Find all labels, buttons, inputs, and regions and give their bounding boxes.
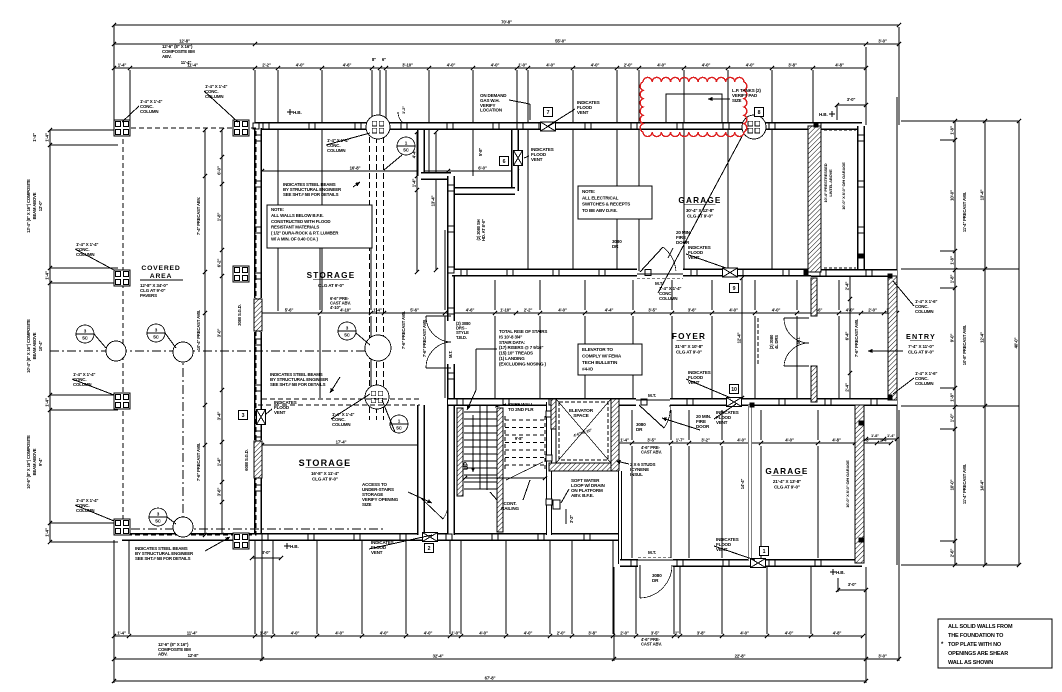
svg-text:2'-0": 2'-0" [624, 62, 633, 67]
svg-text:7'-4" PRECAST ABV.: 7'-4" PRECAST ABV. [196, 197, 201, 235]
svg-text:T.B.D.: T.B.D. [456, 335, 467, 340]
svg-text:9'-4": 9'-4" [38, 458, 43, 466]
svg-text:ABV.: ABV. [158, 652, 168, 657]
svg-text:4'-0": 4'-0" [772, 307, 781, 312]
svg-text:3'-5": 3'-5" [647, 437, 656, 442]
svg-text:6'-2": 6'-2" [216, 259, 221, 268]
svg-text:DOOR: DOOR [696, 424, 710, 429]
svg-text:2'-2": 2'-2" [262, 62, 271, 67]
svg-text:M.T.: M.T. [448, 351, 453, 358]
svg-text:SPACE: SPACE [573, 413, 589, 419]
svg-text:2'-0": 2'-0" [868, 307, 877, 312]
svg-text:17'-4": 17'-4" [336, 439, 347, 444]
svg-text:COLUMN: COLUMN [327, 148, 345, 153]
svg-text:1'-2": 1'-2" [401, 106, 406, 114]
svg-text:VENT: VENT [716, 420, 728, 425]
svg-text:(15) 10" TREADS: (15) 10" TREADS [499, 351, 533, 356]
svg-text:VENT: VENT [371, 550, 383, 555]
svg-text:LINTEL ABOVE: LINTEL ABOVE [828, 169, 833, 197]
svg-text:WALL AS SHOWN: WALL AS SHOWN [948, 660, 993, 666]
svg-text:SWITCHES & RECEPTS: SWITCHES & RECEPTS [582, 202, 630, 207]
svg-text:1'-8": 1'-8" [949, 275, 954, 284]
svg-text:6": 6" [382, 57, 386, 62]
svg-text:BEAM ABOVE: BEAM ABOVE [32, 192, 37, 219]
svg-text:ELEVATOR TO: ELEVATOR TO [582, 347, 613, 352]
svg-text:2'-4": 2'-4" [844, 383, 849, 392]
svg-text:5C: 5C [396, 425, 402, 430]
svg-text:10: 10 [731, 387, 737, 393]
svg-text:GARAGE: GARAGE [765, 467, 808, 476]
svg-text:3'-2": 3'-2" [701, 437, 710, 442]
svg-text:4'-0": 4'-0" [546, 62, 555, 67]
svg-text:1'-7": 1'-7" [676, 437, 685, 442]
svg-text:7'-6" PRECAST AVB.: 7'-6" PRECAST AVB. [196, 443, 201, 481]
svg-text:10'-6" (8" X 16") COMPOSITE: 10'-6" (8" X 16") COMPOSITE [26, 435, 31, 489]
svg-text:4'-0": 4'-0" [746, 62, 755, 67]
svg-text:BEAM ABOVE: BEAM ABOVE [32, 448, 37, 475]
svg-text:ABV.: ABV. [162, 54, 172, 59]
svg-text:OPENINGS ARE SHEAR: OPENINGS ARE SHEAR [948, 651, 1008, 657]
svg-text:5C: 5C [153, 334, 159, 339]
svg-text:1'-8": 1'-8" [216, 213, 221, 222]
svg-text:COLUMN: COLUMN [915, 381, 933, 386]
svg-text:4'-8": 4'-8" [832, 437, 841, 442]
svg-text:COMPLY W/ FEMA: COMPLY W/ FEMA [582, 354, 622, 359]
svg-text:COLUMN: COLUMN [332, 422, 350, 427]
svg-text:21'-4" X 13'-8": 21'-4" X 13'-8" [773, 479, 801, 484]
svg-text:3'-4": 3'-4" [216, 412, 221, 421]
svg-text:3'-0": 3'-0" [878, 38, 887, 43]
svg-text:4'-0": 4'-0" [335, 630, 344, 635]
svg-text:1'-4": 1'-4" [373, 307, 382, 312]
svg-text:TOP PLATE WITH NO: TOP PLATE WITH NO [948, 642, 1002, 648]
svg-text:ENTRY: ENTRY [906, 332, 936, 341]
svg-text:14'-4": 14'-4" [979, 480, 984, 491]
svg-text:NOTE:: NOTE: [582, 189, 596, 194]
svg-text:2: 2 [428, 546, 431, 552]
svg-text:11'-4": 11'-4" [181, 60, 192, 65]
svg-text:6: 6 [503, 159, 506, 165]
svg-text:VENT: VENT [577, 110, 589, 115]
svg-text:LOCATION: LOCATION [480, 108, 502, 113]
svg-text:SEE SHT.# 5B FOR DETAILS: SEE SHT.# 5B FOR DETAILS [283, 192, 339, 197]
svg-text:5C: 5C [403, 147, 409, 152]
svg-text:3'-6": 3'-6" [216, 488, 221, 497]
svg-text:TECH BULLETIN: TECH BULLETIN [582, 360, 618, 365]
svg-text:H.B.: H.B. [290, 544, 299, 549]
svg-text:AREA: AREA [150, 273, 172, 280]
svg-text:1'-4": 1'-4" [216, 458, 221, 467]
svg-text:4'-10": 4'-10" [330, 305, 341, 310]
svg-text:2'-0": 2'-0" [557, 630, 566, 635]
svg-text:3'-8": 3'-8" [588, 630, 597, 635]
svg-text:CLG AT 9'-0": CLG AT 9'-0" [312, 477, 338, 482]
svg-text:55'-0": 55'-0" [555, 38, 566, 43]
svg-text:4'-0": 4'-0" [479, 630, 488, 635]
svg-text:8: 8 [758, 110, 761, 116]
svg-text:12'-8": 12'-8" [188, 653, 199, 658]
svg-text:3'-0": 3'-0" [262, 550, 271, 555]
svg-text:10'-0": 10'-0" [949, 190, 954, 201]
svg-text:30'-4" X 12'-8": 30'-4" X 12'-8" [686, 208, 714, 213]
svg-text:5'-8": 5'-8" [478, 148, 483, 156]
svg-text:W/ A MIN. OF 0.40 CCA ): W/ A MIN. OF 0.40 CCA ) [271, 237, 318, 242]
svg-text:3'-6": 3'-6" [688, 307, 697, 312]
svg-text:1": 1" [675, 630, 679, 635]
svg-text:8": 8" [372, 57, 376, 62]
svg-text:RESISTANT MATERIALS: RESISTANT MATERIALS [271, 225, 319, 230]
svg-text:4'-0": 4'-0" [524, 630, 533, 635]
svg-text:ALL SOLID WALLS FROM: ALL SOLID WALLS FROM [948, 624, 1013, 630]
svg-text:10'-4": 10'-4" [38, 341, 43, 352]
svg-text:M.T.: M.T. [796, 337, 801, 344]
svg-text:VENT: VENT [274, 410, 286, 415]
svg-text:6'-4": 6'-4" [844, 332, 849, 341]
svg-text:4'-0": 4'-0" [424, 630, 433, 635]
svg-text:UP: UP [464, 462, 470, 470]
svg-text:5C: 5C [82, 335, 88, 340]
svg-text:4'-6": 4'-6" [343, 62, 352, 67]
svg-text:2'-6": 2'-6" [949, 549, 954, 558]
svg-text:7'-6" PRECAST AVB.: 7'-6" PRECAST AVB. [854, 319, 859, 357]
svg-text:SEE SHT.# 5B FOR DETAILS: SEE SHT.# 5B FOR DETAILS [270, 382, 326, 387]
svg-text:(17) RISERS @ 7 9/16": (17) RISERS @ 7 9/16" [499, 345, 543, 350]
svg-text:TO BE ABV D.F.E.: TO BE ABV D.F.E. [582, 208, 617, 213]
svg-text:DR: DR [652, 578, 659, 583]
svg-text:10'-0" X 8'-0" O/H GARAGE: 10'-0" X 8'-0" O/H GARAGE [841, 162, 846, 210]
svg-text:10'-0" X 8'-0" O/H GARAGE: 10'-0" X 8'-0" O/H GARAGE [845, 460, 850, 508]
svg-text:4'-0": 4'-0" [447, 62, 456, 67]
svg-text:13'-4": 13'-4" [430, 196, 435, 207]
svg-text:4'-0": 4'-0" [702, 62, 711, 67]
svg-text:9'-8": 9'-8" [515, 436, 523, 441]
svg-text:TO 2ND FLR: TO 2ND FLR [508, 407, 534, 412]
svg-text:CONSTRUCTED WITH FLOOD: CONSTRUCTED WITH FLOOD [271, 219, 330, 224]
svg-text:SIZE: SIZE [732, 98, 742, 103]
svg-text:#4-IO: #4-IO [582, 367, 593, 372]
svg-text:1'-4": 1'-4" [887, 433, 895, 438]
svg-text:4L DRS: 4L DRS [774, 335, 779, 349]
svg-text:2'-2": 2'-2" [524, 307, 533, 312]
svg-text:H.B.: H.B. [293, 110, 302, 115]
svg-text:CLG AT 9'-0": CLG AT 9'-0" [774, 485, 800, 490]
svg-text:9: 9 [733, 286, 736, 292]
svg-text:SIZE: SIZE [362, 502, 372, 507]
svg-text:1'-8": 1'-8" [949, 126, 954, 135]
svg-text:1'-4": 1'-4" [118, 62, 127, 67]
svg-text:1'-4": 1'-4" [32, 133, 37, 142]
svg-text:12'-4": 12'-4" [736, 333, 741, 344]
svg-text:1'-4": 1'-4" [620, 437, 629, 442]
svg-text:7: 7 [547, 110, 550, 116]
svg-text:3'-2": 3'-2" [569, 515, 574, 523]
svg-text:4'-0": 4'-0" [291, 630, 300, 635]
svg-text:M.T.: M.T. [648, 550, 656, 555]
svg-text:1: 1 [763, 549, 766, 555]
svg-text:ALL WALLS BELOW B.F.E.: ALL WALLS BELOW B.F.E. [271, 213, 323, 218]
svg-text:4'-0": 4'-0" [591, 62, 600, 67]
svg-text:6080 S.G.D.: 6080 S.G.D. [244, 449, 249, 470]
svg-text:1'-4": 1'-4" [411, 179, 416, 188]
svg-text:THE FOUNDATION TO: THE FOUNDATION TO [948, 633, 1004, 639]
svg-text:10'-0": 10'-0" [949, 480, 954, 491]
svg-text:STORAGE: STORAGE [307, 271, 356, 280]
svg-text:NOTE:: NOTE: [271, 207, 285, 212]
svg-text:1'-0": 1'-0" [518, 62, 527, 67]
svg-text:7'-6" PRECAST AVB.: 7'-6" PRECAST AVB. [422, 319, 427, 357]
svg-text:( 1/2" DURA-ROCK & P.T. LUMBER: ( 1/2" DURA-ROCK & P.T. LUMBER [271, 231, 339, 236]
svg-text:COVERED: COVERED [141, 265, 180, 272]
svg-text:CLG AT 9'-0": CLG AT 9'-0" [908, 350, 934, 355]
svg-text:IS 10'-8 3/4": IS 10'-8 3/4" [499, 334, 522, 339]
svg-text:13'-4" (8" X 16") COMPOSITE: 13'-4" (8" X 16") COMPOSITE [26, 179, 31, 233]
svg-text:16'-8" X 11'-4": 16'-8" X 11'-4" [311, 471, 339, 476]
svg-text:1'-4": 1'-4" [44, 528, 49, 537]
svg-text:3'-0": 3'-0" [216, 329, 221, 338]
svg-text:2'-4": 2'-4" [844, 282, 849, 291]
svg-text:ELEVATOR: ELEVATOR [569, 408, 594, 414]
svg-text:3'-5": 3'-5" [651, 630, 660, 635]
svg-text:ABV. B.F.E.: ABV. B.F.E. [571, 493, 594, 498]
svg-text:3'-0": 3'-0" [878, 653, 887, 658]
svg-text:11'-4" PRECAST AVB.: 11'-4" PRECAST AVB. [962, 464, 967, 504]
svg-text:3'-10": 3'-10" [402, 62, 413, 67]
svg-text:4'-0": 4'-0" [380, 630, 389, 635]
svg-text:14'-4": 14'-4" [740, 479, 745, 490]
svg-text:4'-0": 4'-0" [737, 437, 746, 442]
svg-text:3'-8": 3'-8" [697, 630, 706, 635]
svg-text:CLG AT 9'-0": CLG AT 9'-0" [676, 350, 702, 355]
svg-text:3: 3 [242, 413, 245, 419]
svg-text:16'-8": 16'-8" [350, 165, 361, 170]
svg-text:10'-4" PRECAST AVB.: 10'-4" PRECAST AVB. [196, 310, 201, 350]
svg-text:COLUMN: COLUMN [140, 109, 158, 114]
svg-text:9'-0": 9'-0" [949, 334, 954, 343]
svg-text:CLG AT 9'-0": CLG AT 9'-0" [318, 283, 344, 288]
svg-text:6'-0": 6'-0" [478, 165, 487, 170]
svg-text:4'-8": 4'-8" [833, 630, 842, 635]
svg-text:BEAM ABOVE: BEAM ABOVE [32, 332, 37, 359]
svg-text:(1) LANDING: (1) LANDING [499, 356, 525, 361]
svg-text:RAILING: RAILING [501, 506, 519, 511]
svg-text:(EXCLUDING NOSING ): (EXCLUDING NOSING ) [499, 361, 547, 366]
svg-text:4'-0": 4'-0" [296, 62, 305, 67]
svg-text:1'-4": 1'-4" [117, 630, 126, 635]
svg-text:4'-10": 4'-10" [340, 307, 351, 312]
svg-text:3'-0": 3'-0" [848, 582, 857, 587]
svg-text:10'-8" PRECAST AVB.: 10'-8" PRECAST AVB. [962, 325, 967, 365]
svg-text:10'-4" (8" X 16") COMPOSITE: 10'-4" (8" X 16") COMPOSITE [26, 319, 31, 373]
svg-text:VENT: VENT [531, 157, 543, 162]
svg-text:TOTAL RISE OF STAIRS: TOTAL RISE OF STAIRS [499, 329, 547, 334]
svg-text:GARAGE: GARAGE [678, 196, 721, 205]
svg-text:7'-4" X 11'-0": 7'-4" X 11'-0" [908, 344, 934, 349]
svg-text:1'-8": 1'-8" [260, 630, 269, 635]
svg-text:32'-4": 32'-4" [433, 653, 444, 658]
svg-text:1'-4": 1'-4" [44, 271, 49, 280]
svg-text:COLUMN: COLUMN [915, 309, 933, 314]
svg-text:4'-0": 4'-0" [491, 62, 500, 67]
svg-text:HD. AT 8'-0": HD. AT 8'-0" [481, 219, 486, 241]
svg-text:4'-6": 4'-6" [466, 307, 475, 312]
svg-text:H.B.: H.B. [836, 570, 845, 575]
svg-text:1'-8": 1'-8" [949, 393, 954, 402]
svg-text:M.T.: M.T. [648, 393, 656, 398]
svg-text:12'-4": 12'-4" [979, 332, 984, 343]
svg-text:5C: 5C [344, 332, 350, 337]
svg-text:31'-8" X 10'-8": 31'-8" X 10'-8" [675, 344, 703, 349]
svg-text:DR: DR [612, 244, 619, 249]
svg-text:STAIR DATA:: STAIR DATA: [499, 340, 526, 345]
svg-text:3'-5": 3'-5" [648, 307, 657, 312]
svg-text:7'-6" PRECAST AVB.: 7'-6" PRECAST AVB. [401, 311, 406, 349]
svg-text:1'-4": 1'-4" [44, 398, 49, 407]
svg-text:1'-8": 1'-8" [871, 433, 879, 438]
svg-text:22'-8": 22'-8" [735, 653, 746, 658]
svg-text:ALL ELECTRICAL: ALL ELECTRICAL [582, 195, 619, 200]
svg-text:3'-0": 3'-0" [847, 97, 856, 102]
svg-text:4'-0": 4'-0" [657, 62, 666, 67]
svg-text:SEE SHT.# 5B FOR DETAILS: SEE SHT.# 5B FOR DETAILS [135, 556, 191, 561]
svg-text:11'-4" PRECAST AVB.: 11'-4" PRECAST AVB. [962, 192, 967, 232]
svg-text:12'-8": 12'-8" [179, 38, 190, 43]
svg-text:INSUL: INSUL [630, 472, 643, 477]
svg-text:1'-10": 1'-10" [500, 307, 511, 312]
svg-text:12'-0": 12'-0" [38, 201, 43, 212]
svg-text:3'-8": 3'-8" [788, 62, 797, 67]
svg-text:4'-0": 4'-0" [729, 307, 738, 312]
svg-text:2'-0": 2'-0" [620, 630, 629, 635]
svg-text:H.B.: H.B. [819, 112, 828, 117]
svg-text:1'-8": 1'-8" [949, 256, 954, 265]
svg-text:5'-6": 5'-6" [285, 307, 294, 312]
svg-text:4'-0": 4'-0" [785, 437, 794, 442]
svg-text:4'-0": 4'-0" [740, 630, 749, 635]
svg-text:4'-0": 4'-0" [785, 630, 794, 635]
svg-text:40'-0": 40'-0" [1013, 338, 1018, 349]
svg-text:1'-0": 1'-0" [949, 414, 954, 423]
svg-text:4'-4": 4'-4" [605, 307, 614, 312]
svg-text:13'-4": 13'-4" [979, 190, 984, 201]
svg-text:67'-8": 67'-8" [485, 675, 496, 680]
svg-text:5C: 5C [155, 518, 161, 523]
svg-text:70'-8": 70'-8" [501, 19, 512, 24]
svg-text:FOYER: FOYER [672, 332, 706, 341]
svg-text:1'-0": 1'-0" [451, 630, 460, 635]
svg-text:1'-4": 1'-4" [44, 133, 49, 142]
svg-text:STORAGE: STORAGE [299, 458, 352, 468]
svg-text:11'-4": 11'-4" [187, 630, 198, 635]
svg-text:COLUMN: COLUMN [659, 296, 677, 301]
svg-text:CAST ABV.: CAST ABV. [641, 450, 662, 455]
svg-text:5'-6": 5'-6" [410, 307, 419, 312]
svg-text:6'-0": 6'-0" [216, 166, 221, 175]
svg-text:DR: DR [636, 427, 643, 432]
svg-text:3080 S.G.D.: 3080 S.G.D. [237, 304, 242, 325]
svg-text:4'-0": 4'-0" [558, 307, 567, 312]
svg-text:CAST ABV.: CAST ABV. [641, 642, 662, 647]
svg-text:4'-8": 4'-8" [835, 62, 844, 67]
svg-text:PAVERS: PAVERS [140, 293, 157, 298]
